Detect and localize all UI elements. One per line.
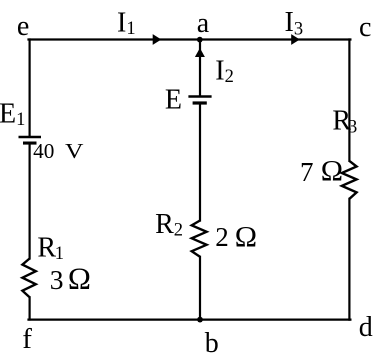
- resistor R2: [192, 221, 207, 257]
- arrowhead I3: [291, 34, 300, 45]
- svg-text:E1: E1: [0, 98, 25, 130]
- arrowhead I1: [153, 34, 162, 45]
- wire R1-f: [29, 297, 31, 319]
- svg-text:I2: I2: [215, 56, 234, 88]
- svg-text:e: e: [17, 11, 29, 42]
- svg-text:V: V: [65, 139, 84, 163]
- svg-text:R2: R2: [155, 209, 183, 241]
- svg-text:b: b: [205, 328, 219, 359]
- svg-text:R1: R1: [37, 233, 64, 265]
- svg-text:E: E: [165, 84, 182, 115]
- svg-text:7: 7: [300, 157, 314, 187]
- wire R3-d: [348, 199, 350, 320]
- wire top e-a-c: [29, 38, 351, 40]
- wire a-E: [199, 40, 201, 96]
- battery E: [188, 97, 211, 105]
- wire bottom f-b-d: [29, 319, 351, 321]
- svg-text:R3: R3: [332, 106, 357, 138]
- resistor R1: [22, 259, 35, 298]
- wire left e-E1: [29, 40, 31, 136]
- battery E1: [19, 137, 42, 145]
- node b: [197, 317, 203, 323]
- svg-text:40: 40: [33, 139, 54, 163]
- node a: [197, 37, 203, 43]
- svg-text:I3: I3: [285, 7, 304, 39]
- wire E-R2: [199, 105, 201, 221]
- svg-text:I1: I1: [117, 8, 136, 40]
- svg-text:Ω: Ω: [321, 155, 343, 188]
- svg-text:3: 3: [50, 264, 64, 295]
- svg-text:a: a: [197, 8, 210, 39]
- resistor R3: [342, 161, 357, 199]
- svg-text:Ω: Ω: [235, 221, 257, 254]
- svg-text:c: c: [359, 12, 371, 43]
- wire R2-b: [199, 257, 201, 320]
- svg-text:2: 2: [215, 222, 229, 252]
- wire E1-R1: [29, 144, 31, 258]
- arrowhead I2: [195, 48, 205, 57]
- svg-text:Ω: Ω: [68, 261, 91, 296]
- svg-text:f: f: [22, 323, 32, 355]
- svg-text:d: d: [359, 312, 373, 343]
- wire right c-R3: [348, 40, 350, 161]
